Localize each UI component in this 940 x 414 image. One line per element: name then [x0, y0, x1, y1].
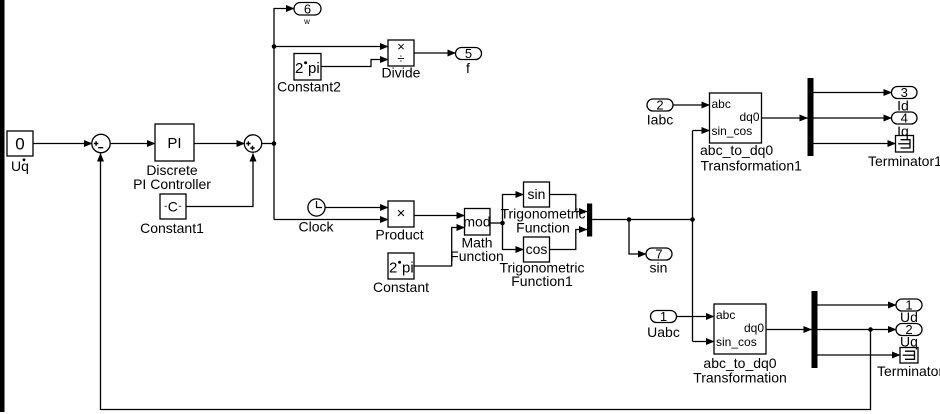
wire Uq* to sum1 — [33, 143, 92, 145]
svg-text:Iabc: Iabc — [647, 112, 673, 128]
constant block "0" (Uq* reference) — [7, 131, 33, 156]
wire mux output to sin_cos trunk — [592, 219, 692, 221]
constant block 2*pi (Constant) — [388, 253, 414, 279]
demux2 bar — [812, 291, 818, 368]
abc_to_dq0 Transformation1 block — [710, 93, 762, 143]
node trig tee — [500, 221, 505, 226]
wire demux2 to outport 2 — [818, 329, 897, 331]
svg-text:Constant2: Constant2 — [277, 79, 341, 95]
sum junction S1 (+ -) — [92, 134, 110, 152]
svg-text:6: 6 — [304, 1, 311, 16]
svg-text:Clock: Clock — [298, 219, 334, 235]
Trigonometric Function block (sin) — [524, 182, 550, 207]
svg-text:5: 5 — [465, 46, 472, 61]
svg-text:PI: PI — [167, 135, 181, 152]
wire demux2 to outport 1 — [818, 304, 897, 306]
wire mod to trig junction — [490, 222, 503, 224]
svg-text:dq0: dq0 — [739, 110, 759, 124]
wire tap to outport7 — [629, 220, 646, 255]
outport 1 (Ud) — [896, 298, 922, 313]
wire sum1 to PI — [110, 143, 155, 145]
outport 5 (f) — [456, 46, 482, 61]
svg-text:Divide: Divide — [382, 65, 421, 81]
svg-text:sin_cos: sin_cos — [712, 124, 753, 138]
svg-text:abc: abc — [716, 308, 735, 322]
left page border bar — [0, 0, 5, 412]
svg-text:mod: mod — [463, 214, 490, 230]
wire cos to mux — [550, 230, 588, 250]
wire junction to sin — [503, 195, 524, 224]
inport 2 (Iabc) — [647, 98, 673, 113]
wire demux2 to Terminator — [818, 354, 901, 356]
Terminator1 block — [896, 136, 914, 153]
wire Divide to outport 5 — [414, 52, 456, 54]
wire demux1 to Terminator1 — [814, 143, 896, 145]
mux bar — [587, 204, 592, 237]
svg-text:Terminator1: Terminator1 — [868, 153, 940, 169]
abc_to_dq0 Transformation block — [714, 304, 766, 354]
svg-text:pi: pi — [402, 260, 414, 277]
svg-text:Product: Product — [375, 227, 423, 243]
svg-text:Transformation1: Transformation1 — [701, 158, 803, 174]
node divide tap — [272, 44, 277, 49]
wire Constant1 to sum2 bottom — [186, 154, 253, 207]
wire trunk to Divide input1 — [274, 46, 388, 48]
svg-text:sin: sin — [528, 186, 546, 202]
svg-text:Constant1: Constant1 — [140, 220, 204, 236]
wire sum2 to junction — [262, 143, 275, 145]
svg-text:Terminator: Terminator — [877, 363, 940, 379]
wire Uabc to T abc — [677, 316, 715, 318]
wire trunk to T sin_cos — [693, 341, 715, 343]
svg-text:Iq: Iq — [897, 123, 909, 139]
Product block — [388, 201, 414, 227]
wire T dq0 to demux2 — [766, 329, 812, 331]
svg-text:f: f — [466, 60, 470, 76]
node port7 tap — [627, 217, 632, 222]
wire demux1 to outport 4 — [814, 117, 892, 119]
node sum2-out tee — [272, 141, 277, 146]
svg-text:w: w — [303, 17, 310, 26]
svg-text:Function: Function — [450, 248, 504, 264]
svg-text:Constant: Constant — [373, 279, 429, 295]
wire Constant to mod input2 — [414, 228, 465, 267]
wire trunk to T1 sin_cos — [693, 130, 710, 132]
constant2 block 2*pi — [294, 54, 321, 81]
wire Constant2 to Divide input2 — [321, 60, 388, 67]
node feedback tap — [868, 327, 873, 332]
svg-text:abc: abc — [712, 97, 731, 111]
Trigonometric Function1 block (cos) — [524, 237, 550, 262]
wire feedback Uq to sum1 — [101, 154, 871, 410]
Clock block — [308, 199, 325, 216]
constant C1 block (-C-) — [160, 194, 186, 219]
wire sin to mux — [550, 195, 588, 212]
svg-text:C: C — [168, 199, 178, 215]
svg-text:×: × — [397, 205, 406, 222]
outport 3 (Id) — [892, 85, 918, 100]
svg-text:cos: cos — [526, 241, 548, 257]
svg-text:Function: Function — [516, 220, 570, 236]
svg-text:sin_cos: sin_cos — [716, 335, 757, 349]
svg-text:dq0: dq0 — [744, 321, 764, 335]
outport 7 (sin) — [646, 247, 672, 262]
svg-text:2: 2 — [389, 260, 397, 277]
svg-text:sin: sin — [650, 260, 668, 276]
wire Clock to Product input1 — [325, 207, 388, 209]
svg-text:1: 1 — [660, 309, 667, 324]
wire vertical trunk x274 — [274, 9, 294, 220]
svg-text:Uq: Uq — [11, 158, 29, 174]
svg-text:abc_to_dq0: abc_to_dq0 — [700, 142, 773, 158]
svg-text:PI Controller: PI Controller — [133, 176, 211, 192]
wire Product to mod input1 — [414, 215, 465, 217]
outport 4 (Iq) — [892, 111, 918, 126]
sum junction S2 (+ +) — [244, 135, 261, 152]
demux1 bar — [808, 78, 814, 156]
Terminator block — [900, 348, 918, 364]
wire demux1 to outport 3 — [814, 92, 892, 94]
outport 2 (Uq) — [896, 322, 922, 337]
wire trunk to Product input2 — [274, 219, 388, 221]
Math Function block (mod) — [465, 209, 491, 236]
wire Iabc to T1 abc — [673, 104, 710, 106]
inport 1 (Uabc) — [651, 309, 677, 324]
Divide block — [388, 40, 414, 66]
svg-text:Uabc: Uabc — [647, 324, 680, 340]
svg-text:Function1: Function1 — [511, 273, 573, 289]
node sin_cos trunk tee — [690, 217, 695, 222]
svg-text:pi: pi — [308, 60, 320, 77]
svg-text:0: 0 — [15, 135, 24, 154]
outport 6 (w) — [294, 1, 321, 16]
svg-text:2: 2 — [656, 98, 663, 113]
svg-text:2: 2 — [295, 60, 303, 77]
wire PI to sum2 — [194, 143, 245, 145]
wire junction to cos — [503, 223, 524, 250]
wire sin_cos trunk vertical — [692, 131, 694, 342]
wire T1 dq0 to demux1 — [762, 117, 808, 119]
Discrete PI Controller block — [155, 124, 194, 161]
svg-text:Transformation: Transformation — [693, 370, 787, 386]
